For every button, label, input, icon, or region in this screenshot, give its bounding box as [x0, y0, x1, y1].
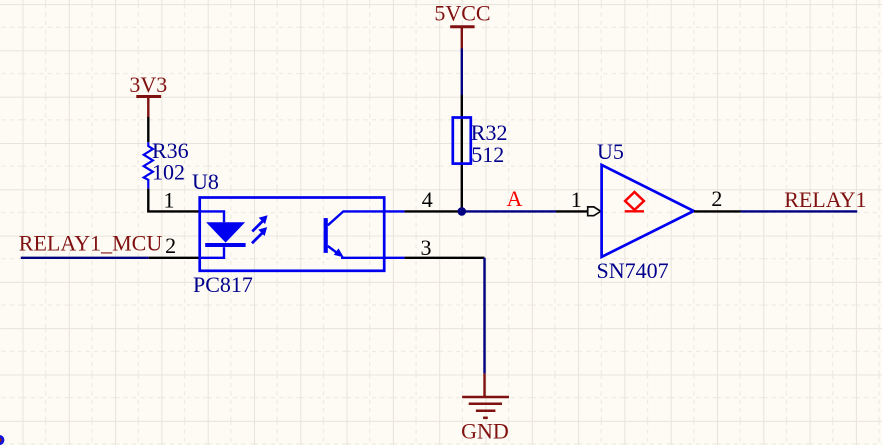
svg-text:SN7407: SN7407 — [597, 258, 669, 283]
wire RELAY1 blue — [741, 210, 858, 212]
phototransistor base bar — [324, 218, 328, 253]
svg-text:3: 3 — [421, 235, 432, 260]
svg-text:A: A — [507, 186, 523, 211]
wire RELAY1_MCU — [21, 257, 149, 259]
power port 3V3 — [129, 72, 167, 118]
svg-text:102: 102 — [152, 159, 185, 184]
emission arrow 2 — [252, 227, 267, 243]
LED cathode bar — [205, 243, 245, 247]
junction node A — [458, 207, 467, 216]
wire R36 to pin1 — [148, 189, 200, 212]
svg-text:512: 512 — [471, 142, 504, 167]
stray glyph bottom-left — [0, 436, 3, 443]
wire 5VCC blue segment — [461, 49, 463, 96]
power port 5VCC — [434, 1, 490, 49]
svg-text:1: 1 — [571, 187, 582, 212]
svg-text:GND: GND — [461, 419, 509, 444]
wire pin4 to junction — [405, 210, 462, 212]
wire to U5 black — [556, 210, 588, 212]
svg-text:PC817: PC817 — [193, 272, 253, 297]
svg-text:U5: U5 — [597, 139, 624, 164]
open-collector symbol — [625, 192, 644, 211]
buffer U5 triangle — [602, 165, 694, 257]
wire U5 output black — [694, 210, 741, 212]
phototransistor collector — [328, 211, 405, 225]
svg-text:2: 2 — [165, 233, 176, 258]
svg-text:2: 2 — [711, 186, 722, 211]
LED cathode lead — [200, 247, 224, 258]
LED triangle — [206, 222, 245, 242]
wire 3V3 to R36 — [147, 117, 149, 142]
svg-text:RELAY1: RELAY1 — [784, 187, 866, 212]
phototransistor emitter — [328, 246, 405, 258]
svg-text:4: 4 — [422, 187, 433, 212]
wire to pin2 — [149, 257, 200, 259]
power port GND — [461, 374, 509, 444]
emission arrow 1 — [252, 215, 267, 231]
wire pin3 horizontal — [405, 257, 485, 259]
resistor R32 — [453, 118, 508, 168]
wire junction to U5 blue — [462, 210, 556, 212]
svg-text:1: 1 — [164, 188, 175, 213]
input pin arrow U5 — [588, 207, 601, 216]
svg-text:5VCC: 5VCC — [434, 1, 490, 26]
svg-text:3V3: 3V3 — [129, 72, 167, 97]
svg-text:RELAY1_MCU: RELAY1_MCU — [19, 231, 163, 256]
LED anode lead — [200, 211, 224, 222]
wire 5VCC black segment through R32 to junction — [461, 95, 463, 211]
svg-text:U8: U8 — [192, 169, 219, 194]
resistor R36 — [144, 138, 189, 188]
wire pin3 vertical to GND — [483, 258, 485, 374]
optocoupler U8 box — [200, 198, 385, 271]
